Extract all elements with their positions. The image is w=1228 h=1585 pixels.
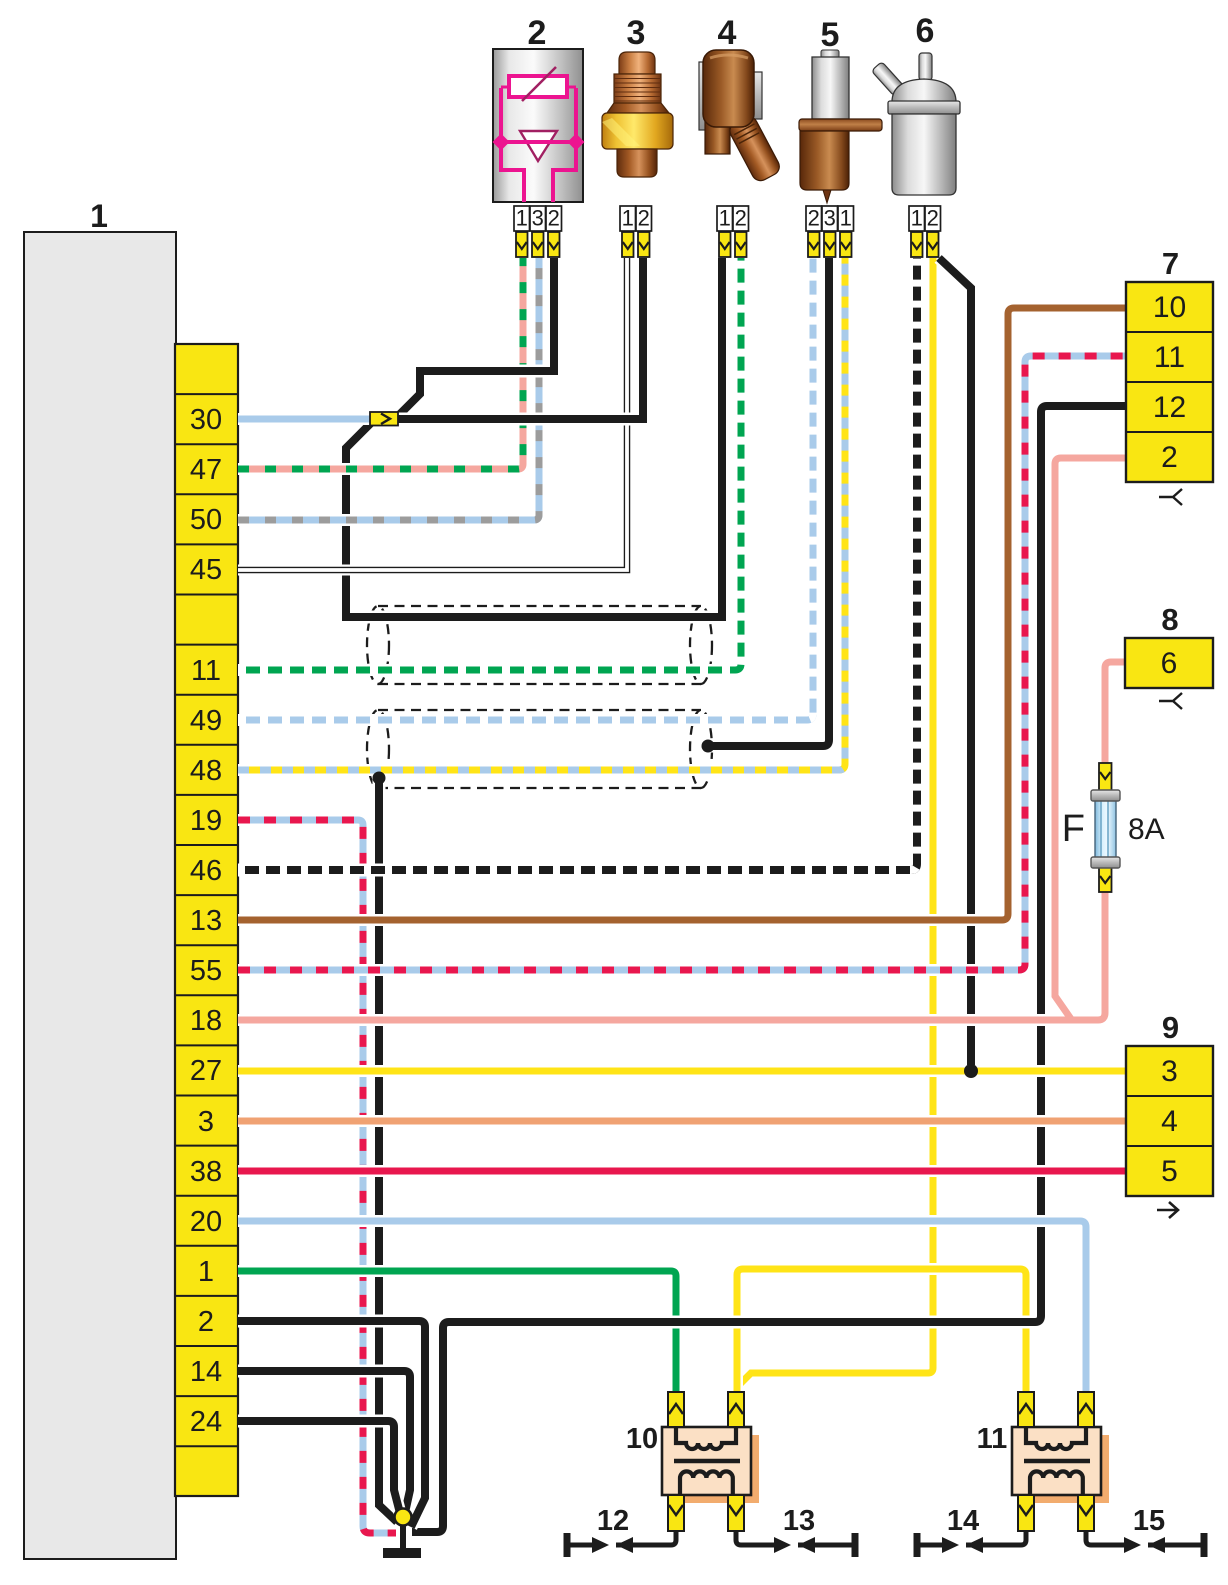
- wire 38 red: ECU 38 to block 9 pin5: [238, 1165, 1127, 1177]
- svg-text:14: 14: [190, 1356, 222, 1388]
- svg-text:1: 1: [719, 206, 731, 231]
- svg-text:24: 24: [190, 1406, 222, 1438]
- wire 48 yellow-blue: ECU 48 to sensor 5 pin1: [238, 258, 845, 770]
- spark plug lead 15: [1124, 1537, 1141, 1553]
- valve 6 (canister purge valve): [871, 62, 904, 97]
- svg-text:55: 55: [190, 955, 222, 987]
- svg-text:18: 18: [190, 1005, 222, 1037]
- sensor 3 (coolant temperature sensor): [602, 52, 673, 177]
- svg-text:3: 3: [198, 1106, 214, 1138]
- connector block 8 (pin 6): [1125, 638, 1213, 688]
- junction dot: shield 2 drain right: [702, 740, 715, 753]
- ground node (yellow): [395, 1509, 412, 1526]
- svg-text:30: 30: [190, 404, 222, 436]
- svg-text:27: 27: [190, 1055, 222, 1087]
- svg-text:3: 3: [1161, 1055, 1178, 1088]
- harness fork symbol under block 8: [1159, 693, 1182, 709]
- fuse F 8A: [1099, 763, 1112, 795]
- svg-text:3: 3: [627, 14, 646, 52]
- svg-text:2: 2: [528, 14, 547, 52]
- svg-text:5: 5: [821, 16, 840, 54]
- svg-text:2: 2: [548, 206, 560, 231]
- shielded cable 2 (dashed cylinder): [367, 710, 712, 788]
- wire 46 black-white: ECU 46 to valve 6 pin1: [238, 258, 917, 870]
- svg-text:2: 2: [1161, 441, 1178, 474]
- wire 24 black: ECU 24 to ground node: [238, 1421, 401, 1517]
- svg-text:7: 7: [1162, 246, 1179, 281]
- sensor 2 internal symbol: [501, 76, 576, 202]
- splice connector on wire 30: [370, 412, 398, 426]
- connector block 7 (pins 10 11 12 2): [1126, 282, 1213, 482]
- harness fork symbol under block 7: [1159, 489, 1182, 505]
- connector block 9 (pins 3 4 5): [1126, 1046, 1213, 1196]
- sensor 4 pins 1 2: [717, 206, 733, 231]
- junction dot: valve 6 branch on wire 27: [964, 1064, 978, 1078]
- wire black: valve 6 pin2 branch to junction on wire 27: [939, 258, 971, 1065]
- arrow symbol under block 9: [1157, 1202, 1178, 1218]
- sensor 2 pins 1 3 2: [514, 206, 530, 231]
- svg-text:6: 6: [916, 12, 935, 50]
- wire black: ground node to block 7 pin12: [412, 406, 1127, 1532]
- spark plug lead 13: [774, 1537, 791, 1553]
- svg-text:5: 5: [1161, 1155, 1178, 1188]
- sensor 5 (crankshaft position sensor): [821, 50, 839, 58]
- wire 1 green: ECU 1 to coil 10: [238, 1271, 676, 1392]
- svg-text:2: 2: [927, 206, 939, 231]
- svg-text:4: 4: [1161, 1105, 1178, 1138]
- svg-text:48: 48: [190, 755, 222, 787]
- sensor 5 pins 2 3 1: [806, 206, 822, 231]
- svg-text:14: 14: [947, 1505, 979, 1537]
- svg-text:49: 49: [190, 705, 222, 737]
- svg-text:8A: 8A: [1128, 813, 1165, 846]
- svg-text:13: 13: [190, 905, 222, 937]
- wire 55 blue-red: ECU 55 to block 7 pin11: [238, 356, 1127, 970]
- svg-text:2: 2: [735, 206, 747, 231]
- wire black: sensor 2 pin2 to splice: [399, 258, 554, 415]
- spark plug lead 14: [914, 1533, 921, 1557]
- wire yellow: coil 10 to coil 11 link: [737, 1269, 1026, 1392]
- svg-text:3: 3: [532, 206, 544, 231]
- svg-text:1: 1: [90, 198, 108, 234]
- shielded cable 1 (dashed cylinder): [367, 606, 712, 684]
- ignition coil 10: [670, 1435, 759, 1503]
- svg-text:38: 38: [190, 1156, 222, 1188]
- svg-text:8: 8: [1161, 602, 1178, 637]
- svg-text:1: 1: [516, 206, 528, 231]
- ground symbol: [400, 1520, 406, 1548]
- svg-text:11: 11: [1154, 341, 1185, 374]
- wire 14 black: ECU 14 to ground node: [238, 1371, 410, 1517]
- svg-text:45: 45: [190, 554, 222, 586]
- sensor 4 (camshaft phase sensor): [699, 62, 708, 130]
- svg-text:9: 9: [1162, 1010, 1179, 1045]
- wire black: splice to sensor 3 pin2: [397, 258, 643, 419]
- spark plug lead 12: [564, 1533, 571, 1557]
- wire 45 white: ECU 45 to sensor 3 pin1: [238, 258, 627, 570]
- svg-text:19: 19: [190, 805, 222, 837]
- wire black: coil 10 HV output to plug 12: [630, 1528, 676, 1545]
- wire black: sensor 5 pin3 to shield 2 drain dot: [708, 258, 829, 746]
- sensor 2 (idle air control valve) body: [493, 49, 583, 202]
- wire black: coil 11 HV output to plug 15: [1086, 1528, 1126, 1545]
- wire 27 yellow: ECU 27 to block 9 pin3: [238, 1065, 1127, 1077]
- wire 30 light blue: ECU 30 to splice: [238, 413, 374, 425]
- svg-text:1: 1: [840, 206, 852, 231]
- svg-text:2: 2: [198, 1306, 214, 1338]
- ECU controller box 1: [24, 232, 176, 1559]
- svg-text:1: 1: [911, 206, 923, 231]
- svg-text:12: 12: [1153, 391, 1186, 424]
- svg-text:46: 46: [190, 855, 222, 887]
- svg-text:50: 50: [190, 504, 222, 536]
- wire 20 light blue: ECU 20 to coil 11: [238, 1221, 1086, 1392]
- svg-text:13: 13: [783, 1505, 815, 1537]
- wire 47 pink-green: ECU 47 to sensor 2 pin1: [238, 258, 523, 469]
- wire black: splice to sensor 4 pin1 via shield: [346, 258, 722, 617]
- wire 13 brown: ECU 13 to block 7 pin10: [238, 308, 1127, 920]
- svg-text:1: 1: [198, 1256, 214, 1288]
- svg-text:F: F: [1062, 808, 1085, 850]
- svg-text:11: 11: [977, 1423, 1008, 1455]
- wire 18 pink: ECU 18 to fuse and block 7 pin2: [238, 458, 1127, 1020]
- svg-text:10: 10: [1153, 291, 1186, 324]
- wire yellow: valve 6 pin2 down to coil 10: [737, 258, 933, 1392]
- wire 11 green-white: ECU 11 to sensor 4 pin2: [238, 258, 741, 670]
- wire black: shield 2 drain to ground node: [379, 775, 397, 1522]
- svg-text:4: 4: [718, 14, 737, 52]
- svg-text:10: 10: [626, 1423, 658, 1455]
- wire 49 blue-white: ECU 49 to sensor 5 pin2: [238, 258, 813, 720]
- sensor 3 pins 1 2: [620, 206, 636, 231]
- svg-text:3: 3: [824, 206, 836, 231]
- ECU connector pin strip X1: [175, 344, 238, 1496]
- ignition coil 11: [1020, 1435, 1109, 1503]
- svg-text:2: 2: [808, 206, 820, 231]
- wire 3 orange: ECU 3 to block 9 pin4: [238, 1115, 1127, 1127]
- svg-text:2: 2: [638, 206, 650, 231]
- svg-text:11: 11: [191, 655, 221, 687]
- svg-text:6: 6: [1161, 647, 1178, 680]
- junction dot: shield 2 drain left: [373, 772, 386, 785]
- svg-text:12: 12: [597, 1505, 629, 1537]
- valve 6 pins 1 2: [909, 206, 925, 231]
- svg-text:47: 47: [190, 454, 222, 486]
- svg-text:15: 15: [1133, 1505, 1165, 1537]
- svg-text:1: 1: [622, 206, 634, 231]
- wire 2 black: ECU 2 to ground node: [238, 1321, 425, 1527]
- wire 19 blue-red: ECU 19 to ground node: [238, 820, 396, 1533]
- wire black: coil 10 HV output to plug 13: [736, 1528, 776, 1545]
- wire 50 blue-gray: ECU 50 to sensor 2 pin3: [238, 258, 539, 520]
- wire black: coil 11 HV output to plug 14: [980, 1528, 1026, 1545]
- svg-text:20: 20: [190, 1206, 222, 1238]
